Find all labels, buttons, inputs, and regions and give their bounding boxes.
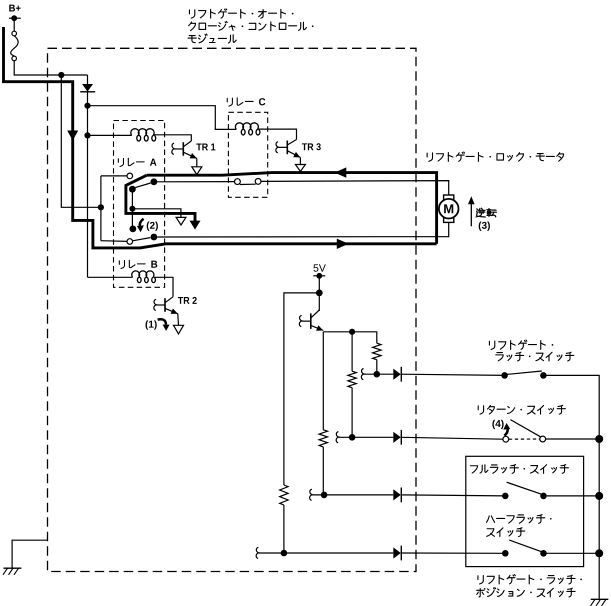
wire [259, 552, 394, 554]
resistor R4 [319, 430, 327, 447]
label ポジション・スイッチ [477, 588, 576, 597]
wire [322, 332, 324, 430]
open arrow to bus [192, 167, 202, 175]
resistor R3 [280, 485, 288, 505]
current arrow left (top bus) [335, 167, 347, 177]
label (4) [492, 420, 495, 429]
label B+ [9, 5, 15, 12]
label リレー C [227, 98, 265, 106]
module box (control module outline) [48, 48, 417, 571]
wire [323, 332, 377, 343]
wire [544, 495, 600, 497]
relay C coil [235, 123, 259, 135]
junction [281, 550, 288, 557]
wire [401, 495, 505, 496]
contact point [130, 226, 137, 233]
junction [316, 290, 323, 297]
transistor TR3 [276, 140, 301, 158]
open arrow [174, 325, 184, 334]
junction [129, 186, 136, 193]
label リフトゲート・ [489, 340, 553, 349]
wire [88, 106, 237, 130]
junction [129, 206, 135, 212]
wire [154, 135, 191, 141]
wire [13, 18, 15, 31]
B+ terminal [9, 15, 21, 21]
thick wire B+ trunk [4, 27, 437, 248]
junction [151, 178, 158, 185]
switch full-latch [502, 482, 547, 499]
diode D4 [393, 488, 401, 503]
pigtail [336, 432, 339, 443]
relay C contact left [235, 179, 241, 185]
relay A coil [131, 129, 156, 141]
label リターン・スイッチ [478, 405, 565, 414]
wire [543, 375, 599, 598]
action arrow (1) [158, 319, 166, 324]
wire [87, 135, 89, 277]
junction [595, 492, 603, 500]
wire [100, 176, 102, 241]
label (2) [147, 222, 150, 231]
wire (motor return) [157, 222, 448, 237]
resistor R1 [373, 343, 381, 360]
relay C contact right [255, 179, 261, 185]
wire (motor feed top) [157, 181, 238, 183]
relay C box [228, 112, 267, 197]
diode D2 [393, 367, 401, 382]
wire [284, 293, 319, 485]
open arrow [176, 217, 186, 225]
wire [351, 332, 353, 371]
wire [132, 209, 181, 218]
junction [349, 434, 356, 441]
label 逆転 [476, 208, 496, 217]
wire [376, 360, 378, 375]
pigtail [310, 489, 313, 500]
wire [299, 158, 301, 165]
wire [401, 374, 504, 375]
wire [544, 552, 600, 554]
wire [283, 505, 285, 553]
junction [374, 371, 381, 378]
wire [61, 75, 101, 207]
relay B contact arm [133, 238, 151, 241]
wire [131, 189, 133, 229]
switch half-latch [502, 540, 547, 557]
solid arrow down [190, 221, 201, 230]
fusible link [11, 31, 18, 61]
wire [87, 75, 89, 84]
wire [401, 437, 503, 439]
direction arrow 逆転 [470, 202, 472, 227]
wire [351, 388, 353, 438]
label ラッチ・スイッチ [496, 352, 574, 361]
relay A contact common [127, 173, 133, 179]
pigtail [361, 369, 364, 380]
motor M [439, 195, 459, 222]
label ハーフラッチ・ [487, 515, 552, 524]
wire [87, 92, 89, 106]
wire [259, 129, 297, 139]
wire [364, 373, 393, 375]
switch return (4) [503, 420, 546, 443]
label リレー A [118, 158, 156, 166]
thick wire top bus [147, 173, 437, 244]
wire [546, 438, 600, 440]
ground (module) [3, 540, 48, 575]
pigtail [256, 547, 259, 558]
junction [321, 492, 328, 499]
label フルラッチ・スイッチ [470, 465, 568, 474]
relay A contact arm [135, 183, 150, 188]
resistor R2 [348, 371, 356, 388]
transistor Q4 [299, 310, 323, 331]
transistor TR2 [154, 297, 178, 314]
label リフトゲート・オート・クロージャ・コントロール・モジュール [188, 9, 313, 43]
wire [318, 276, 320, 293]
thick wire relay A path [126, 175, 195, 221]
action arrow (4) [504, 428, 507, 435]
junction [151, 234, 158, 241]
label リフトゲート・ロック・モータ [427, 152, 564, 161]
diode D3 [393, 430, 401, 445]
relay A/B box [114, 121, 165, 288]
wire [101, 175, 127, 177]
switch box (full/half latch) [466, 456, 584, 566]
junction [595, 435, 603, 443]
switch liftgate-latch [501, 371, 546, 379]
transistor TR1 [172, 141, 197, 158]
label (1) [145, 320, 148, 329]
5V terminal [313, 273, 325, 279]
diode D5 [393, 546, 401, 561]
wire [312, 494, 393, 496]
label リフトゲート・ラッチ・ [478, 575, 582, 584]
wire [339, 436, 394, 438]
relay B coil [132, 271, 156, 283]
wire [154, 277, 173, 297]
junction [84, 103, 90, 109]
action arrow (2) [140, 219, 144, 227]
wire [101, 240, 127, 243]
label TR 3 [302, 143, 307, 150]
wire [87, 106, 89, 136]
wire [261, 181, 449, 195]
wire [318, 293, 320, 311]
junction [58, 72, 64, 78]
relay B contact common [127, 239, 133, 245]
junction [98, 204, 104, 210]
diode D1 [80, 84, 95, 92]
label スイッチ [487, 528, 525, 537]
current arrow down [67, 131, 78, 141]
wire [401, 552, 505, 554]
label 5V [313, 264, 318, 271]
label TR 1 [196, 144, 201, 151]
wire [14, 61, 87, 75]
relay C contact arm [240, 183, 256, 185]
label TR 2 [178, 297, 183, 304]
wire [177, 314, 180, 326]
junction [595, 549, 603, 557]
wire [322, 447, 324, 495]
ground (switch common) [591, 599, 609, 606]
junction [84, 132, 90, 138]
wire [88, 276, 133, 278]
label リレー B [119, 260, 157, 268]
wire [196, 158, 198, 166]
label (3) [479, 222, 482, 231]
open arrow to bus [295, 165, 305, 172]
wire [88, 134, 132, 136]
current arrow right (bottom bus) [337, 239, 349, 249]
junction [349, 329, 355, 335]
